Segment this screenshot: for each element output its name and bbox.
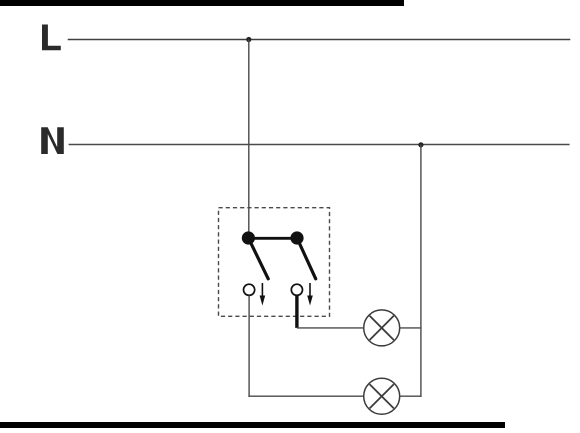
actuation arrow pole 1 xyxy=(260,283,266,306)
switch S1 pole 1 lever xyxy=(248,238,268,279)
node L label xyxy=(42,25,61,51)
switch S1 pole 2 output terminal xyxy=(291,284,302,295)
lamp E2 xyxy=(364,378,400,414)
switch S1 pole 1 output terminal xyxy=(244,284,255,295)
switch S1 pole 2 common terminal xyxy=(290,231,303,244)
wire L line xyxy=(68,39,571,41)
switch S1 pole 1 common terminal xyxy=(242,231,255,244)
wire feed from L to switch common xyxy=(248,40,250,234)
junction on N line xyxy=(418,142,423,147)
switch S1 pole 2 lever xyxy=(297,238,316,279)
actuation arrow pole 2 xyxy=(307,283,313,306)
wire lamp E2 to N drop xyxy=(400,395,422,397)
wire bottom run to lamp E2 xyxy=(248,395,363,397)
junction on L line xyxy=(246,37,251,42)
wire coupler between pole commons xyxy=(248,237,297,240)
wire N line xyxy=(69,144,570,146)
switch S1 enclosure xyxy=(219,208,330,317)
top edge strip (transparent-black region of source image) xyxy=(0,0,404,6)
wire N drop xyxy=(420,145,422,397)
lamp E1 xyxy=(364,310,400,346)
node N label xyxy=(41,127,64,154)
wire pole 1 output down xyxy=(248,296,250,397)
wire lamp E1 to N drop xyxy=(400,327,422,329)
wire run to lamp E1 xyxy=(297,327,364,329)
bottom edge strip (transparent-black region of source image) xyxy=(0,422,505,428)
wire pole 2 output down (thick) xyxy=(295,296,298,328)
